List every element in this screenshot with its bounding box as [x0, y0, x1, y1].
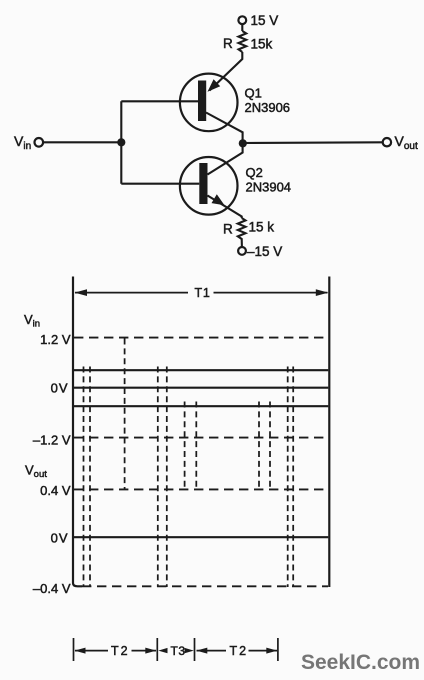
dimension tick x=157.3 — [156, 638, 158, 661]
transistor Q2 2N3904 (NPN) — [180, 157, 238, 215]
svg-text:1.2 V: 1.2 V — [40, 332, 71, 347]
wire: Q2 base — [121, 183, 199, 185]
waveform transition dashed vertical x=270 — [269, 402, 271, 490]
node: input junction — [117, 138, 125, 146]
dimension arrow T1 — [75, 289, 329, 296]
dimension tick x=73.5 — [73, 638, 75, 661]
wire: Q2 emitter to bottom resistor — [208, 196, 242, 219]
wire: Q2 collector to output node — [208, 143, 243, 174]
dashed level line -1.2V — [74, 437, 328, 439]
svg-text:0.4 V: 0.4 V — [40, 483, 71, 498]
svg-text:0V: 0V — [51, 381, 69, 396]
svg-text:SeekIC.com: SeekIC.com — [301, 651, 420, 674]
svg-text:R: R — [223, 36, 233, 51]
transistor Q1 2N3906 (PNP) — [180, 74, 238, 132]
waveform transition dashed vertical x=83.5 — [83, 367, 85, 588]
axis line 0V Vout (solid) — [74, 536, 328, 538]
wire: R top resistor to Q1 emitter — [210, 52, 243, 91]
dimension arrow T3 — [158, 648, 194, 653]
resistor R (top, 15k) — [239, 31, 247, 52]
svg-text:T2: T2 — [111, 644, 130, 658]
dashed level line +0.4V — [74, 488, 328, 490]
dashed level line +1.2V — [74, 337, 328, 339]
wire: Q1 collector to output node — [206, 113, 243, 144]
waveform transition dashed vertical x=287.7 — [287, 367, 289, 588]
waveform transition dashed vertical x=292.5 — [292, 367, 294, 588]
svg-text:15 V: 15 V — [251, 13, 279, 28]
svg-text:–15 V: –15 V — [247, 244, 282, 259]
terminal +15V — [238, 16, 246, 31]
waveform transition dashed vertical x=124.6 (from +1.2V) — [124, 339, 126, 490]
dimension arrow T2 (first) — [75, 648, 157, 654]
svg-text:2N3906: 2N3906 — [245, 100, 291, 115]
axis line 0V Vin (solid) — [74, 387, 328, 389]
waveform transition dashed vertical x=90 — [89, 367, 91, 588]
terminal -15V — [238, 247, 246, 255]
svg-text:–1.2 V: –1.2 V — [33, 433, 71, 448]
waveform transition dashed vertical x=157.8 — [157, 367, 159, 588]
waveform line Vin high (solid) — [74, 369, 328, 371]
node: output junction — [239, 139, 247, 147]
svg-text:R: R — [223, 222, 233, 237]
svg-text:–0.4 V: –0.4 V — [33, 581, 71, 596]
wire: output node to Vout — [243, 141, 383, 144]
dimension arrow T2 (second) — [196, 648, 277, 654]
svg-text:15k: 15k — [251, 37, 273, 52]
wire: Vin to base node — [43, 141, 122, 143]
waveform transition dashed vertical x=196.3 — [195, 402, 197, 490]
svg-text:15 k: 15 k — [249, 220, 275, 235]
svg-text:2N3904: 2N3904 — [246, 180, 292, 195]
svg-text:T3: T3 — [171, 644, 186, 658]
svg-text:Q2: Q2 — [246, 165, 263, 180]
dashed level line -0.4V — [82, 585, 328, 587]
terminal Vin — [35, 138, 44, 147]
svg-text:T1: T1 — [195, 286, 211, 300]
terminal Vout — [383, 138, 391, 146]
dimension tick x=277.9 — [277, 638, 279, 661]
wire: base bus vertical — [120, 101, 122, 183]
waveform transition dashed vertical x=184.6 — [184, 402, 186, 490]
svg-text:0V: 0V — [51, 531, 69, 546]
graph left axis — [73, 277, 82, 587]
waveform line Vin low (solid) — [74, 405, 328, 407]
wire: Q1 base — [121, 100, 198, 102]
graph right axis — [328, 277, 330, 588]
waveform transition dashed vertical x=166.8 — [166, 367, 168, 588]
waveform transition dashed vertical x=259 — [258, 402, 260, 490]
resistor R (bottom, 15k) — [238, 218, 246, 247]
dimension tick x=194.5 — [194, 638, 196, 661]
svg-text:Q1: Q1 — [245, 86, 262, 101]
svg-text:T2: T2 — [230, 644, 249, 658]
